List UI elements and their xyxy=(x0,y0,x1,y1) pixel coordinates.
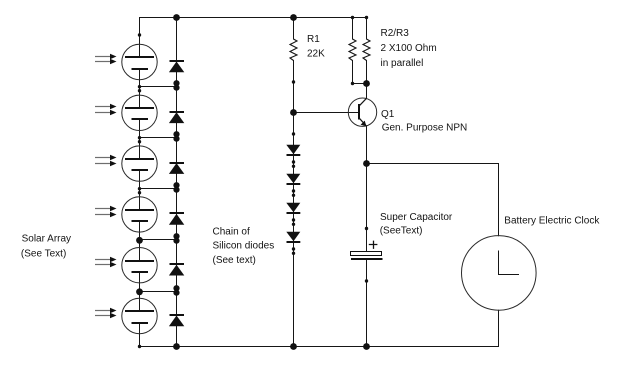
svg-text:in parallel: in parallel xyxy=(381,58,424,69)
svg-text:(SeeText): (SeeText) xyxy=(380,226,423,237)
svg-text:(See text): (See text) xyxy=(213,255,256,266)
svg-text:R2/R3: R2/R3 xyxy=(381,28,410,39)
svg-text:22K: 22K xyxy=(307,49,325,60)
svg-text:Chain of: Chain of xyxy=(213,227,250,238)
svg-text:R1: R1 xyxy=(307,34,320,45)
svg-text:Solar Array: Solar Array xyxy=(22,233,71,244)
svg-text:Battery Electric Clock: Battery Electric Clock xyxy=(504,216,600,227)
svg-text:2 X100 Ohm: 2 X100 Ohm xyxy=(381,43,437,54)
svg-text:Q1: Q1 xyxy=(381,109,395,120)
svg-text:Gen. Purpose NPN: Gen. Purpose NPN xyxy=(382,122,468,133)
svg-text:Super Capacitor: Super Capacitor xyxy=(380,212,453,223)
svg-text:Silicon diodes: Silicon diodes xyxy=(213,241,275,252)
svg-text:(See Text): (See Text) xyxy=(21,248,66,259)
